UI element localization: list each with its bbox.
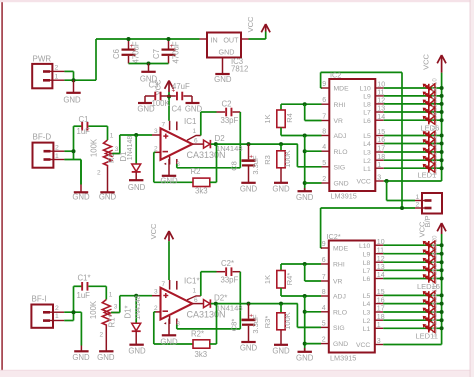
ground D1* bbox=[128, 331, 146, 355]
wire GND row bottom bbox=[305, 343, 321, 345]
wire C6-C7 bottom rail bbox=[129, 63, 169, 65]
svg-text:33pF: 33pF bbox=[221, 276, 239, 285]
wire IC3 out bbox=[249, 32, 266, 40]
svg-text:C1*: C1* bbox=[78, 274, 91, 283]
svg-text:GND: GND bbox=[272, 346, 290, 355]
svg-text:D2*: D2* bbox=[214, 294, 227, 303]
wire signal to SIG pin bottom bbox=[297, 304, 321, 328]
capacitor C8* 3.3uF bbox=[229, 304, 259, 342]
wire RHI to R4 bbox=[280, 104, 282, 110]
wires LED rows to rail bottom bbox=[383, 245, 441, 328]
wire BF-D pin1 to ground drop bbox=[64, 160, 81, 185]
svg-text:1: 1 bbox=[55, 74, 59, 81]
svg-text:PWR: PWR bbox=[33, 55, 52, 64]
label LED6 bbox=[421, 124, 440, 133]
wire C1* to R1* top bbox=[105, 286, 107, 299]
wire R1 wiper to op-amp input bbox=[112, 135, 152, 154]
ground IC1* bbox=[160, 319, 178, 347]
svg-text:R1*: R1* bbox=[107, 314, 116, 327]
svg-text:GND: GND bbox=[334, 181, 349, 188]
svg-text:GND: GND bbox=[219, 48, 235, 57]
svg-text:C8: C8 bbox=[229, 161, 238, 171]
svg-text:◄: ◄ bbox=[163, 161, 167, 166]
svg-text:7: 7 bbox=[322, 274, 326, 281]
diode D1 1N4148 bbox=[119, 135, 141, 172]
svg-text:9: 9 bbox=[322, 241, 326, 248]
ground PWR bbox=[63, 80, 81, 104]
svg-text:C2*: C2* bbox=[221, 259, 234, 268]
resistor R4* 1K bbox=[263, 271, 294, 289]
ground C3 bbox=[137, 103, 155, 114]
supply VCC at regulator output bbox=[246, 16, 270, 32]
svg-text:2: 2 bbox=[416, 202, 420, 209]
ground R3* bbox=[272, 345, 290, 356]
supply VCC LED rail bbox=[421, 54, 446, 73]
wire RLO row bbox=[305, 150, 322, 152]
ground IC3 bbox=[214, 58, 232, 85]
junction BF-I pin2 bbox=[72, 310, 76, 314]
capacitor C3 bbox=[145, 81, 171, 108]
svg-text:1N4148: 1N4148 bbox=[135, 295, 142, 320]
ground C8 bbox=[240, 183, 258, 194]
ground D1 bbox=[128, 172, 146, 192]
capacitor C8 3.3uF bbox=[229, 144, 259, 182]
capacitor C2 33pF bbox=[201, 100, 241, 126]
svg-text:VCC: VCC bbox=[246, 16, 255, 32]
junction dots on rail bbox=[440, 86, 444, 170]
supply VCC op-amp IC1 bbox=[153, 79, 173, 121]
svg-text:RLO: RLO bbox=[333, 309, 347, 316]
svg-text:C1: C1 bbox=[79, 115, 89, 124]
svg-text:7: 7 bbox=[322, 114, 326, 121]
svg-text:C3: C3 bbox=[149, 81, 159, 90]
capacitor C1* bbox=[74, 274, 107, 301]
connector PWR bbox=[32, 55, 64, 89]
wire BF-I pin2 riser to C1* bbox=[64, 286, 81, 320]
svg-text:D2: D2 bbox=[215, 134, 226, 143]
pin 2 stub bbox=[154, 145, 161, 152]
junction VCC pin3 bbox=[385, 179, 389, 183]
svg-text:6: 6 bbox=[322, 97, 326, 104]
svg-text:470uF: 470uF bbox=[172, 41, 181, 63]
svg-text:LED1: LED1 bbox=[418, 171, 437, 180]
LED LED4 bbox=[423, 135, 438, 151]
svg-text:1: 1 bbox=[377, 162, 381, 169]
svg-text:C7: C7 bbox=[152, 49, 161, 59]
svg-text:1N4148: 1N4148 bbox=[216, 303, 243, 312]
svg-text:100K: 100K bbox=[89, 138, 98, 157]
svg-text:6: 6 bbox=[322, 257, 326, 264]
VCC rail top channel bbox=[441, 73, 443, 181]
top pink border strip bbox=[0, 0, 474, 2]
svg-text:1: 1 bbox=[377, 322, 381, 329]
svg-text:L10: L10 bbox=[359, 243, 371, 250]
ground C4 bbox=[185, 103, 203, 114]
svg-text:7812: 7812 bbox=[231, 65, 248, 74]
svg-text:8: 8 bbox=[322, 129, 326, 136]
regulator IC3 7812 bbox=[200, 33, 249, 74]
junction PWR node bbox=[72, 78, 76, 82]
svg-text:VCC: VCC bbox=[149, 223, 158, 239]
svg-text:RLO: RLO bbox=[334, 149, 348, 156]
junction RHI split bbox=[303, 102, 307, 106]
svg-text:L4: L4 bbox=[363, 141, 371, 148]
resistor R3* 100K bbox=[263, 304, 292, 345]
junction GND row bottom bbox=[303, 342, 307, 346]
svg-text:SIG: SIG bbox=[333, 325, 345, 332]
svg-text:4: 4 bbox=[322, 305, 326, 312]
svg-text:OUT: OUT bbox=[223, 36, 239, 45]
connector BF-I bbox=[31, 295, 64, 328]
wire R4* to ADJ row bbox=[281, 288, 321, 296]
LED LED11 bbox=[423, 318, 438, 337]
junction RLO bottom bbox=[303, 310, 307, 314]
junction RHI split bottom bbox=[303, 262, 307, 266]
capacitor C4 47uF bbox=[169, 82, 192, 114]
svg-text:MDE: MDE bbox=[333, 246, 349, 253]
svg-text:11: 11 bbox=[377, 90, 384, 97]
junction cap bottom bbox=[147, 62, 151, 66]
LED LED5 bbox=[423, 127, 438, 143]
svg-text:11: 11 bbox=[377, 247, 384, 254]
svg-text:VR: VR bbox=[333, 279, 343, 286]
svg-text:2: 2 bbox=[97, 170, 101, 177]
ground R3 bbox=[272, 183, 290, 194]
svg-text:9: 9 bbox=[322, 81, 326, 88]
svg-text:IC2*: IC2* bbox=[327, 232, 341, 241]
svg-text:VCC: VCC bbox=[421, 54, 430, 70]
svg-text:2: 2 bbox=[322, 176, 326, 183]
svg-text:VCC: VCC bbox=[356, 179, 370, 186]
junction C7 top bbox=[167, 37, 171, 41]
svg-text:BF-D: BF-D bbox=[33, 133, 52, 142]
svg-text:R2: R2 bbox=[191, 167, 201, 176]
diode D2* 1N4148 bbox=[204, 294, 243, 313]
svg-text:L2: L2 bbox=[363, 318, 371, 325]
LED LED20 bbox=[423, 235, 438, 254]
svg-text:100K: 100K bbox=[89, 300, 98, 319]
wire RHI to R4* bbox=[280, 264, 282, 271]
LED LED8 bbox=[423, 95, 438, 111]
wire R4 to ADJ row bbox=[281, 128, 322, 136]
wire op-amp output bbox=[192, 143, 203, 145]
svg-text:L3: L3 bbox=[363, 310, 371, 317]
svg-text:1: 1 bbox=[110, 133, 114, 140]
pin 3 stub bottom bbox=[152, 289, 161, 296]
svg-text:IN: IN bbox=[211, 36, 218, 45]
svg-text:D1*: D1* bbox=[124, 305, 133, 318]
svg-text:R4: R4 bbox=[285, 113, 294, 123]
svg-text:L10: L10 bbox=[359, 86, 371, 93]
wire GND row bbox=[305, 182, 322, 184]
svg-text:GND: GND bbox=[185, 105, 203, 114]
svg-text:L1: L1 bbox=[363, 326, 371, 333]
LED LED3 bbox=[423, 143, 438, 159]
svg-text:3: 3 bbox=[154, 128, 158, 135]
svg-text:GND: GND bbox=[272, 184, 290, 193]
junction C8 tap bbox=[247, 142, 251, 146]
svg-text:◄: ◄ bbox=[163, 321, 167, 326]
svg-text:33pF: 33pF bbox=[221, 116, 239, 125]
svg-text:VCC: VCC bbox=[356, 342, 370, 349]
wire ADJ-RLO-GND tie bbox=[304, 136, 306, 191]
ground BF-I bbox=[72, 346, 90, 363]
ground filter caps bbox=[140, 64, 158, 84]
svg-text:L8: L8 bbox=[363, 260, 371, 267]
ground C8* bbox=[240, 342, 258, 353]
svg-text:3: 3 bbox=[154, 289, 158, 296]
wire BF-D pin2 to C1 bbox=[64, 126, 73, 159]
svg-text:GND: GND bbox=[333, 341, 348, 348]
wire mode to B/P pin2 bbox=[321, 207, 415, 209]
wire output node row bottom bbox=[211, 303, 298, 305]
svg-text:7: 7 bbox=[162, 281, 166, 288]
svg-text:3.3uF: 3.3uF bbox=[251, 155, 260, 175]
wire C1 to R1 top bbox=[107, 126, 109, 140]
resistor R2 3k3 bbox=[191, 167, 217, 196]
junction ADJ split bottom bbox=[303, 294, 307, 298]
pin 1 stub to C2 bbox=[187, 112, 201, 140]
svg-text:3: 3 bbox=[377, 175, 381, 182]
wire RHI row bbox=[281, 103, 322, 105]
svg-text:1N4148: 1N4148 bbox=[216, 144, 243, 153]
wire feedback riser bbox=[216, 144, 218, 182]
potentiometer R1* 100K bbox=[89, 292, 119, 339]
wire RLO row bottom bbox=[305, 311, 321, 313]
svg-text:4: 4 bbox=[322, 144, 326, 151]
svg-text:L2: L2 bbox=[363, 158, 371, 165]
svg-text:L1: L1 bbox=[363, 166, 371, 173]
svg-text:3: 3 bbox=[377, 338, 381, 345]
junction C6 top bbox=[127, 37, 131, 41]
junction node after D2* bbox=[214, 302, 218, 306]
svg-text:R1: R1 bbox=[107, 153, 116, 163]
svg-text:3k3: 3k3 bbox=[195, 187, 208, 196]
ground LM3915 bottom bbox=[296, 348, 314, 362]
svg-text:C2: C2 bbox=[222, 100, 232, 109]
svg-text:2: 2 bbox=[55, 305, 59, 312]
wire BF-I gnd drop bbox=[80, 312, 82, 345]
svg-text:SIG: SIG bbox=[334, 164, 346, 171]
svg-text:RHI: RHI bbox=[334, 102, 346, 109]
diode D1* 1N4148 bbox=[124, 295, 143, 331]
label LED1 bbox=[418, 171, 437, 180]
wire PWR pin1 to VCC rail riser bbox=[64, 39, 199, 80]
pin 1 stub to C2* bbox=[187, 272, 201, 300]
junction R3* tap bbox=[279, 302, 283, 306]
wire PWR pin2 elbow bbox=[64, 71, 73, 80]
LED LED19 bbox=[423, 243, 438, 262]
svg-text:ADJ: ADJ bbox=[334, 133, 347, 140]
svg-text:GND: GND bbox=[160, 176, 178, 185]
svg-text:R2*: R2* bbox=[191, 330, 204, 339]
wire RHI row bottom bbox=[281, 263, 321, 265]
svg-text:LM3915: LM3915 bbox=[330, 353, 356, 362]
svg-text:C8*: C8* bbox=[229, 319, 238, 332]
resistor R2* 3k3 bbox=[191, 330, 217, 360]
svg-text:GND: GND bbox=[240, 184, 258, 193]
LED LED17 bbox=[423, 260, 438, 279]
junction C8* tap bbox=[247, 302, 251, 306]
LED LED6 bbox=[423, 112, 438, 128]
right pink border band bbox=[470, 0, 474, 377]
supply VCC op-amp IC1* bbox=[149, 223, 174, 280]
svg-text:L7: L7 bbox=[363, 268, 371, 275]
svg-text:GND: GND bbox=[240, 344, 258, 353]
wire feedback riser bottom bbox=[216, 304, 218, 344]
svg-text:2: 2 bbox=[55, 65, 59, 72]
svg-text:VCC: VCC bbox=[418, 221, 427, 237]
wire pin2 feedback drop bbox=[154, 152, 193, 182]
svg-text:1K: 1K bbox=[263, 275, 272, 284]
svg-text:ADJ: ADJ bbox=[333, 294, 346, 301]
svg-text:1N4148: 1N4148 bbox=[127, 136, 134, 161]
svg-text:L4: L4 bbox=[363, 301, 371, 308]
svg-text:1K: 1K bbox=[263, 114, 272, 123]
LED LED13 bbox=[423, 302, 438, 321]
wire BF-I pin1 bbox=[64, 320, 73, 322]
wire signal to SIG pin bbox=[297, 144, 321, 167]
svg-text:L9: L9 bbox=[363, 251, 371, 258]
svg-text:7: 7 bbox=[162, 122, 166, 129]
pin 3 stub bbox=[152, 128, 161, 135]
svg-text:L6: L6 bbox=[363, 118, 371, 125]
junction BF-D pin2 bbox=[72, 149, 76, 153]
svg-text:1: 1 bbox=[55, 313, 59, 320]
svg-text:GND: GND bbox=[99, 193, 117, 202]
junction ADJ split bbox=[303, 134, 307, 138]
svg-text:IC2: IC2 bbox=[330, 70, 341, 79]
svg-text:IC1: IC1 bbox=[184, 117, 197, 126]
svg-text:LED6: LED6 bbox=[421, 124, 440, 133]
wire ADJ-RLO-GND tie bottom bbox=[304, 296, 306, 351]
svg-text:GND: GND bbox=[160, 338, 178, 347]
junction node after D2 bbox=[214, 142, 218, 146]
wire pin2* feedback drop bbox=[154, 312, 193, 344]
label LED16 bbox=[417, 282, 440, 291]
svg-text:C6: C6 bbox=[112, 49, 121, 59]
svg-text:L8: L8 bbox=[363, 102, 371, 109]
svg-text:GND: GND bbox=[97, 353, 115, 362]
IC2* LM3915 bbox=[321, 232, 385, 362]
svg-text:3.3uF: 3.3uF bbox=[251, 314, 260, 334]
svg-text:1: 1 bbox=[193, 288, 197, 295]
LED LED15 bbox=[423, 285, 438, 304]
svg-text:2: 2 bbox=[322, 337, 326, 344]
svg-text:1uF: 1uF bbox=[77, 291, 91, 300]
LED LED7 bbox=[423, 103, 438, 119]
wire arrow to lower rail bbox=[441, 234, 443, 245]
junction mode wire bbox=[400, 206, 404, 210]
LED LED2 bbox=[423, 152, 438, 168]
op-amp IC1 CA3130N bbox=[161, 117, 226, 168]
ground LM3915 bbox=[296, 188, 314, 202]
wire VR branch bbox=[305, 104, 322, 120]
svg-text:470uF: 470uF bbox=[132, 41, 141, 63]
potentiometer R1 100K bbox=[89, 133, 120, 177]
wire C2* return bbox=[177, 272, 241, 329]
pin 2 stub bottom bbox=[154, 305, 161, 312]
svg-text:L9: L9 bbox=[363, 94, 371, 101]
svg-text:3: 3 bbox=[114, 304, 118, 311]
wire R1* wiper to op-amp bbox=[111, 296, 152, 313]
capacitor C1 bbox=[74, 115, 108, 136]
svg-text:GND: GND bbox=[296, 193, 314, 202]
wire VCC pin3 row bbox=[384, 180, 442, 182]
wire VR branch bottom bbox=[305, 264, 321, 281]
svg-text:GND: GND bbox=[72, 353, 90, 362]
connector B/P bbox=[415, 193, 442, 228]
wires LED rows to VCC rail bbox=[384, 88, 442, 168]
capacitor C2* 33pF bbox=[201, 259, 241, 285]
svg-text:1: 1 bbox=[109, 292, 113, 299]
svg-text:LED11: LED11 bbox=[416, 332, 438, 341]
svg-text:C4: C4 bbox=[172, 105, 183, 114]
svg-text:BF-I: BF-I bbox=[32, 295, 47, 304]
label LED11 bbox=[416, 332, 438, 341]
svg-text:GND: GND bbox=[296, 353, 314, 362]
svg-text:L7: L7 bbox=[363, 110, 371, 117]
LED LED10 bbox=[423, 78, 438, 97]
svg-text:GND: GND bbox=[72, 193, 90, 202]
svg-text:GND: GND bbox=[214, 75, 232, 84]
LED LED1 bbox=[423, 160, 438, 176]
wire C2 return to pin8 bbox=[177, 112, 241, 168]
ground IC1 bbox=[160, 159, 178, 185]
resistor R3 100K bbox=[263, 144, 292, 182]
left frame line bbox=[1, 2, 3, 371]
svg-text:5: 5 bbox=[322, 320, 326, 327]
svg-text:VR: VR bbox=[334, 118, 344, 125]
junction D1* tap bbox=[134, 294, 138, 298]
svg-text:L3: L3 bbox=[363, 150, 371, 157]
svg-text:LED16: LED16 bbox=[417, 282, 440, 291]
junction GND row bbox=[303, 181, 307, 185]
ground BF-D bbox=[72, 160, 90, 202]
junction RLO bbox=[303, 149, 307, 153]
wire output node row bbox=[211, 143, 298, 145]
svg-text:1: 1 bbox=[55, 153, 59, 160]
capacitor C6 bbox=[112, 39, 141, 64]
wire MDE riser bottom bbox=[321, 208, 322, 248]
VCC rail bottom channel bbox=[441, 245, 443, 344]
svg-text:L6: L6 bbox=[363, 276, 371, 283]
junction R3 tap bbox=[279, 142, 283, 146]
wire VCC pin3 row bottom bbox=[383, 344, 441, 346]
svg-text:L5: L5 bbox=[363, 133, 371, 140]
svg-text:GND: GND bbox=[128, 183, 146, 192]
wire VCC to B/P pin1 bbox=[387, 181, 415, 201]
svg-text:LM3915: LM3915 bbox=[331, 191, 357, 200]
junction dots rail bottom bbox=[440, 243, 444, 330]
svg-text:2: 2 bbox=[55, 145, 59, 152]
svg-text:100K: 100K bbox=[283, 150, 292, 168]
diode D2 1N4148 bbox=[204, 134, 243, 153]
svg-text:1: 1 bbox=[193, 128, 197, 135]
svg-text:R4*: R4* bbox=[285, 273, 294, 286]
ground R1 bbox=[99, 167, 117, 202]
svg-text:GND: GND bbox=[128, 347, 146, 356]
LED LED16 bbox=[423, 268, 438, 287]
supply VCC lower LED rail bbox=[418, 221, 447, 237]
svg-text:47uF: 47uF bbox=[172, 82, 190, 91]
svg-text:2: 2 bbox=[100, 332, 104, 339]
svg-text:MDE: MDE bbox=[334, 86, 350, 93]
svg-text:3k3: 3k3 bbox=[195, 350, 208, 359]
svg-text:1: 1 bbox=[416, 194, 420, 201]
svg-text:5: 5 bbox=[322, 160, 326, 167]
ground R1* bbox=[97, 327, 115, 363]
